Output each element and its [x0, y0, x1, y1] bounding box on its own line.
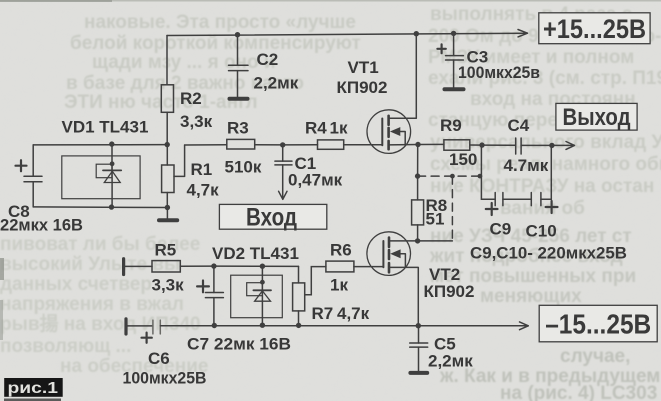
wire output node down to C9/C10 branch — [541, 145, 551, 199]
svg-text:КП902: КП902 — [337, 78, 388, 97]
junction VD1 reference — [110, 161, 115, 166]
capacitor C9 — [495, 193, 503, 206]
svg-text:C4: C4 — [508, 116, 530, 135]
junction bypass link mid — [450, 174, 455, 179]
junction C2/top rail — [235, 32, 240, 37]
resistor R5 — [152, 261, 180, 272]
resistor R3 — [227, 139, 255, 149]
plus mark C9 — [486, 203, 498, 215]
wire node A horizontal (VD1/R2/R1) — [33, 144, 167, 146]
wire R4 to VT1 gate — [344, 144, 383, 146]
svg-text:4,7к: 4,7к — [187, 181, 220, 200]
svg-text:2,2мк: 2,2мк — [428, 352, 473, 371]
svg-text:позволяющ ...: позволяющ ... — [0, 336, 131, 357]
resistor R9 — [444, 140, 470, 150]
junction R9/C4 — [479, 142, 484, 147]
ground under C2 — [230, 97, 248, 101]
wire C10 to C9 — [503, 198, 531, 200]
resistor R7 (with wiper tap) — [293, 266, 305, 325]
svg-text:C6: C6 — [148, 349, 170, 368]
junction R8 top — [415, 173, 420, 178]
top edge scan bar (decorative) — [0, 0, 661, 2]
wire R9 to C4 — [470, 144, 515, 146]
wire ground line bottom-left — [33, 206, 167, 209]
svg-text:4.7мк: 4.7мк — [504, 156, 549, 175]
junction VT2 source/C5/bottom rail — [416, 323, 421, 328]
transistor VT2 КП902 — [367, 232, 418, 326]
capacitor C3 — [437, 33, 463, 87]
svg-text:C9: C9 — [490, 220, 512, 239]
svg-text:R9: R9 — [440, 116, 462, 135]
node -15...25V label box — [539, 305, 657, 342]
svg-text:вания об: вания об — [500, 198, 585, 219]
wire R8 bottom link — [418, 240, 453, 242]
svg-text:R7: R7 — [312, 304, 334, 323]
svg-text:рис.1: рис.1 — [8, 380, 59, 397]
svg-text:C2: C2 — [257, 50, 279, 69]
svg-text:–15...25В: –15...25В — [545, 309, 651, 340]
svg-text:рыв揚 на вход ИП340: рыв揚 на вход ИП340 — [0, 312, 201, 335]
svg-text:2,2мк: 2,2мк — [254, 74, 299, 93]
svg-text:4,7к: 4,7к — [337, 304, 370, 323]
resistor R2 — [161, 85, 173, 113]
wire dashed R8 bypass drop — [451, 176, 453, 241]
junction C7 bottom/bottom rail — [212, 323, 217, 328]
wire R6 left lead to R7 tap — [305, 267, 326, 295]
capacitor C10 — [531, 193, 541, 206]
capacitor C8 — [16, 145, 43, 207]
wire C9 leg up to R9/C4 junction — [481, 145, 495, 199]
svg-text:51: 51 — [426, 210, 445, 229]
svg-text:VD2 TL431: VD2 TL431 — [212, 244, 299, 263]
junction R2/R1 node A — [165, 142, 170, 147]
wire bottom node line (R5/C7/VD2/R7) — [124, 265, 152, 267]
plus mark C6 — [142, 333, 152, 343]
node -15V arrow — [520, 322, 529, 330]
node Вход label box — [219, 204, 326, 232]
svg-text:наковые. Эта просто «лучше: наковые. Эта просто «лучше — [84, 12, 356, 33]
wire C4 to output node — [521, 144, 552, 146]
junction R8 bottom/VT2 drain — [415, 238, 420, 243]
terminal input left upper — [122, 259, 125, 275]
svg-text:R3: R3 — [227, 119, 249, 138]
resistor R8 — [412, 176, 424, 241]
svg-text:C9,C10- 220мкх25В: C9,C10- 220мкх25В — [470, 244, 627, 263]
svg-text:щади мзу ... я оно и: щади мзу ... я оно и — [92, 52, 276, 73]
svg-text:напряжения в вжал: напряжения в вжал — [0, 294, 184, 315]
diode VD2 TL431 — [231, 266, 283, 325]
capacitor C7 — [197, 266, 223, 325]
figure caption рис.1 — [4, 378, 63, 401]
ground under C5 — [410, 371, 427, 375]
ground under R1 — [159, 208, 177, 221]
ground under C3 — [445, 87, 464, 91]
svg-text:случае,: случае, — [560, 346, 630, 367]
wire R2 bottom — [166, 112, 168, 144]
junction VD2 anode/bottom rail — [260, 323, 265, 328]
wire R3 to C1 node — [255, 144, 283, 146]
svg-text:100мкх25В: 100мкх25В — [123, 369, 207, 388]
wire C1 node to R4 — [283, 144, 318, 146]
junction bypass link right — [478, 174, 483, 179]
junction VD2 cathode/node B — [260, 264, 265, 269]
capacitor C2 — [229, 65, 249, 70]
svg-text:R5: R5 — [155, 241, 177, 260]
wire top rail — [167, 33, 527, 35]
wire dashed R9 bypass link — [418, 175, 480, 177]
junction VD1 anode/ground line — [109, 204, 114, 209]
wire gate line R1 tap to R3 — [185, 144, 227, 146]
svg-text:R4: R4 — [305, 119, 327, 138]
svg-text:R2: R2 — [180, 89, 202, 108]
svg-text:белой короткой компенсируют: белой короткой компенсируют — [70, 33, 361, 54]
plus mark C10 — [546, 201, 558, 213]
terminal input left lower — [124, 319, 127, 334]
junction C1/gate line — [280, 142, 285, 147]
capacitor C4 — [516, 138, 521, 154]
wire C2 drop — [237, 35, 239, 97]
svg-text:VT1: VT1 — [348, 58, 379, 77]
svg-text:меняющих: меняющих — [480, 286, 582, 307]
wire VT1 source node to R9 — [418, 143, 444, 145]
junction output node — [549, 143, 554, 148]
svg-text:R1: R1 — [191, 160, 213, 179]
resistor R1 (with wiper tap) — [162, 145, 185, 208]
svg-text:C10: C10 — [526, 222, 557, 241]
svg-text:22мкх 16В: 22мкх 16В — [0, 216, 83, 235]
svg-text:на (рис. 4) LC303: на (рис. 4) LC303 — [500, 383, 657, 401]
svg-text:ние КОНТРАЗУ на остан: ние КОНТРАЗУ на остан — [430, 176, 654, 197]
capacitor C5 — [410, 326, 428, 372]
transistor VT1 КП902 — [367, 34, 418, 154]
resistor R4 — [318, 140, 344, 149]
svg-text:3,3к: 3,3к — [180, 112, 213, 131]
svg-text:VD1 TL431: VD1 TL431 — [62, 118, 149, 137]
resistor R6 — [326, 261, 354, 272]
node output arrow — [552, 142, 575, 150]
svg-text:Выход: Выход — [563, 104, 631, 131]
node +15...25V label box — [539, 13, 650, 44]
junction VD1 cathode/node A — [109, 141, 114, 146]
junction R1 bottom/ground — [165, 205, 170, 210]
wire bottom rail — [126, 325, 153, 327]
capacitor C1 — [275, 145, 292, 199]
wire R5 to node line — [180, 265, 298, 267]
node Выход label box — [556, 103, 637, 131]
node +15V arrow — [518, 30, 528, 37]
svg-text:0,47мк: 0,47мк — [288, 171, 343, 190]
junction VT1 drain/top rail — [414, 31, 419, 36]
svg-text:R6: R6 — [330, 241, 352, 260]
wire R6 to VT2 gate — [354, 266, 384, 268]
svg-text:100мкх25в: 100мкх25в — [458, 63, 540, 82]
svg-text:данных счетвер: данных счетвер — [0, 274, 152, 295]
svg-text:1к: 1к — [330, 276, 348, 295]
svg-text:КП902: КП902 — [424, 282, 475, 301]
junction VT1 source node — [415, 142, 420, 147]
junction C3/top rail — [451, 31, 456, 36]
diode VD1 TL431 — [62, 144, 140, 207]
junction C7 top/node B — [211, 263, 216, 268]
junction R7 bottom/bottom rail — [296, 323, 301, 328]
svg-text:1к: 1к — [330, 119, 348, 138]
svg-text:510к: 510к — [225, 158, 262, 177]
junction VD2 reference — [260, 280, 265, 285]
svg-text:Вход: Вход — [246, 204, 297, 232]
svg-text:+15...25В: +15...25В — [543, 14, 646, 44]
wire R2 top drop — [166, 36, 168, 85]
svg-text:C7 22мк 16В: C7 22мк 16В — [187, 335, 291, 354]
capacitor C6 — [153, 320, 160, 334]
wire VT1 source node down to R8 — [417, 145, 419, 177]
svg-text:3,3к: 3,3к — [152, 276, 185, 295]
wire bottom rail main — [160, 325, 528, 327]
svg-text:150: 150 — [449, 150, 477, 169]
